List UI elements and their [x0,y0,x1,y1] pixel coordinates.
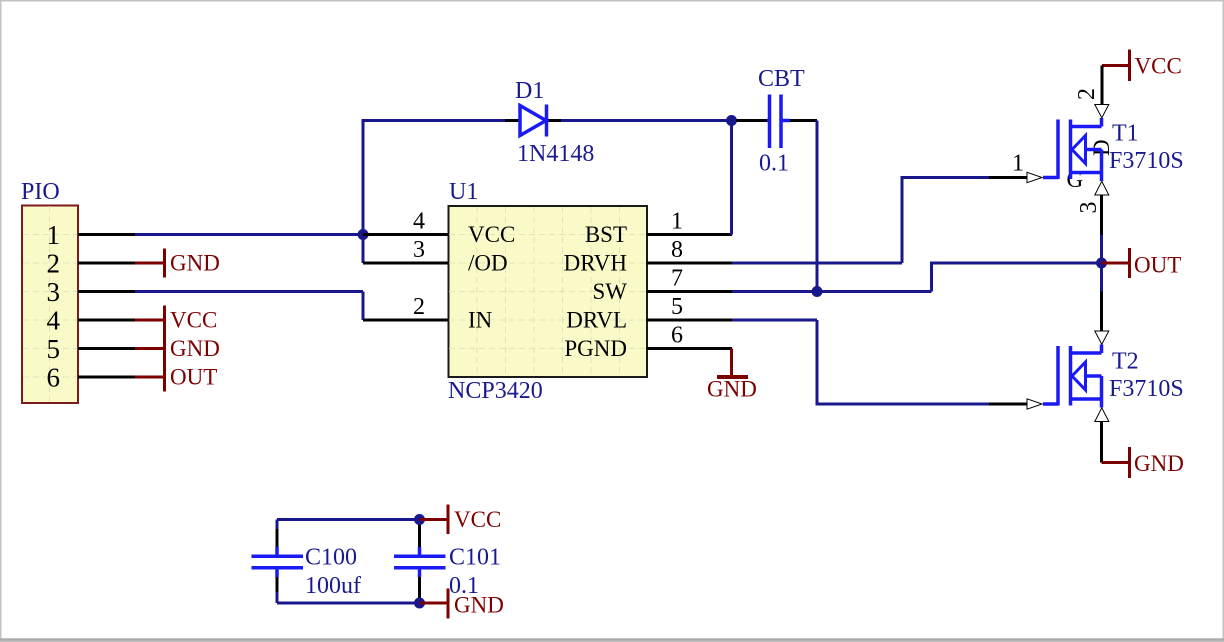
node cap bottom junction dot [414,598,425,609]
T2 drain stub [1071,351,1102,355]
PIO pin 3 stub [78,290,135,293]
T2 drain pin [1100,345,1104,354]
svg-text:PIO: PIO [21,179,60,205]
svg-text:2: 2 [1074,88,1100,100]
svg-text:OUT: OUT [170,365,217,390]
T1 source pin [1100,173,1104,182]
PIO pin 5 stub [78,347,135,350]
wire PIO pin1 to node A [135,233,363,236]
T2 source stub [1071,397,1102,401]
T2 body stub [1086,374,1102,378]
power port VCC at cap rail [420,505,502,535]
svg-text:1N4148: 1N4148 [517,141,594,167]
T1 source stub [1071,171,1102,175]
svg-text:T2: T2 [1112,349,1139,375]
wire to OUT node [1100,235,1103,292]
wire black segment to T1 gate arrow [989,176,1027,179]
svg-text:1: 1 [47,220,61,250]
svg-text:U1: U1 [449,179,478,205]
T1 channel line [1069,120,1073,180]
T2 gate line [1056,346,1060,406]
svg-text:C100: C100 [305,545,357,571]
svg-text:VCC: VCC [1135,54,1182,79]
svg-text:BST: BST [585,222,627,247]
T2 source port arrow [1095,408,1109,422]
wire BST node down to pin 1 [730,121,733,235]
svg-text:T1: T1 [1112,121,1139,147]
svg-text:4: 4 [47,306,61,336]
wire SW from pin 7 [732,290,932,293]
capacitor CBT [736,95,817,149]
U1 pin 7 stub [647,290,733,293]
T2 drain port arrow [1095,331,1109,344]
wire PIO pin3 to right [135,290,363,293]
svg-text:VCC: VCC [468,222,515,247]
T1 source port arrow [1095,181,1109,195]
U1 pin 2 stub [363,319,449,322]
connector PIO body [22,206,78,404]
wire D1 to BST node [561,119,732,122]
T2 gate port arrow [1027,399,1042,409]
wire node A vertical up to D1 row and down to /OD row [363,121,505,264]
PIO pin 4 stub [78,319,135,322]
node A junction dot [358,229,369,240]
T2 channel line [1069,346,1073,406]
svg-text:GND: GND [707,377,757,402]
node SW junction dot [812,286,823,297]
svg-text:GND: GND [1134,451,1184,476]
svg-text:D1: D1 [515,78,544,104]
svg-text:GND: GND [170,251,220,276]
T1 drain pin [1100,118,1104,127]
wire cap bottom rail [277,602,420,605]
T1 body to source [1100,150,1104,173]
U1 pin 4 stub [363,233,449,236]
svg-text:DRVH: DRVH [564,251,627,276]
wire T2 source down to GND row [1100,422,1103,463]
power port OUT at PIO pin 6 [135,363,217,392]
svg-text:F3710S: F3710S [1109,148,1184,174]
svg-text:VCC: VCC [170,308,217,333]
IC U1 body [449,206,648,377]
wire OUT node down to T2 drain arrow [1100,292,1103,332]
svg-text:DRVL: DRVL [566,308,627,333]
svg-text:7: 7 [671,266,683,292]
svg-text:8: 8 [671,237,683,263]
svg-text:3: 3 [1076,202,1102,214]
svg-text:F3710S: F3710S [1109,376,1184,402]
svg-text:1: 1 [671,209,683,235]
wire DRVL down and right to T2 gate [817,320,989,404]
svg-text:1: 1 [1012,151,1024,177]
T1 drain stub [1071,125,1102,129]
diode D1 [505,105,561,137]
U1 pin 8 stub [647,262,733,265]
svg-text:IN: IN [468,308,493,333]
U1 pin 1 stub [647,233,733,236]
svg-text:GND: GND [454,593,504,618]
svg-text:VCC: VCC [454,507,501,532]
svg-text:PGND: PGND [564,336,627,361]
U1 pin 5 stub [647,319,733,322]
U1 pin 6 stub [647,347,733,350]
svg-text:3: 3 [413,237,425,263]
svg-text:2: 2 [47,249,61,279]
svg-text:2: 2 [413,294,425,320]
power port OUT [1102,248,1182,278]
wire vertical jog to IN row [362,292,365,321]
T2 body to source [1100,376,1104,399]
transistor T2 [1027,331,1109,422]
power port GND at U1 pin 6 [707,349,757,402]
T1 body stub [1086,148,1102,152]
PIO pin 6 stub [78,376,135,379]
svg-text:OUT: OUT [1134,253,1181,278]
power port VCC at PIO pin 4 [135,306,217,335]
node OUT junction dot [1096,258,1107,269]
T1 drain port arrow [1095,105,1109,118]
U1 pin 3 stub [363,262,449,265]
power port GND at T2 source [1102,447,1184,478]
svg-text:100uf: 100uf [305,573,361,599]
svg-text:C101: C101 [449,545,501,571]
wire black segment to T2 gate arrow [989,403,1027,406]
capacitor C101 [394,524,446,599]
power port GND at PIO pin 2 [135,249,220,278]
svg-text:0.1: 0.1 [759,151,789,177]
svg-text:6: 6 [47,363,61,393]
wire VCC down to T1 drain arrow [1101,66,1104,105]
transistor T1 [1043,118,1102,181]
svg-text:GND: GND [170,336,220,361]
svg-text:CBT: CBT [758,66,805,92]
svg-text:6: 6 [671,323,683,349]
T1 body arrow [1072,136,1086,164]
T1 gate port arrow [1027,172,1042,182]
capacitor C100 [252,520,304,604]
wire SW step up to OUT row [932,263,1102,292]
node cap top junction dot [414,514,425,525]
power port GND at PIO pin 5 [135,334,220,363]
svg-text:5: 5 [47,334,61,364]
svg-text:4: 4 [413,209,425,235]
T1 gate line [1056,120,1060,180]
T2 body arrow [1072,362,1086,390]
wire cap top rail [277,518,420,521]
power port VCC at T1 drain [1102,50,1182,82]
svg-text:/OD: /OD [468,251,508,276]
PIO pin 2 stub [78,262,135,265]
T2 gate pin [1043,402,1058,406]
T2 source pin [1100,399,1104,408]
wire DRVL from pin 5 [732,319,817,322]
PIO pin 1 stub [78,233,135,236]
svg-text:3: 3 [47,277,61,307]
power port GND at cap rail [420,589,504,619]
svg-text:SW: SW [593,279,628,304]
wire T1 source down [1100,195,1103,235]
wire CBT right down to SW row [816,121,819,292]
svg-text:5: 5 [671,294,683,320]
svg-text:NCP3420: NCP3420 [448,378,543,404]
wire DRVH from pin 8 [732,262,902,265]
wire DRVH up to T1 gate row [902,178,989,264]
node BST junction dot [726,115,737,126]
T1 gate pin [1043,176,1058,180]
